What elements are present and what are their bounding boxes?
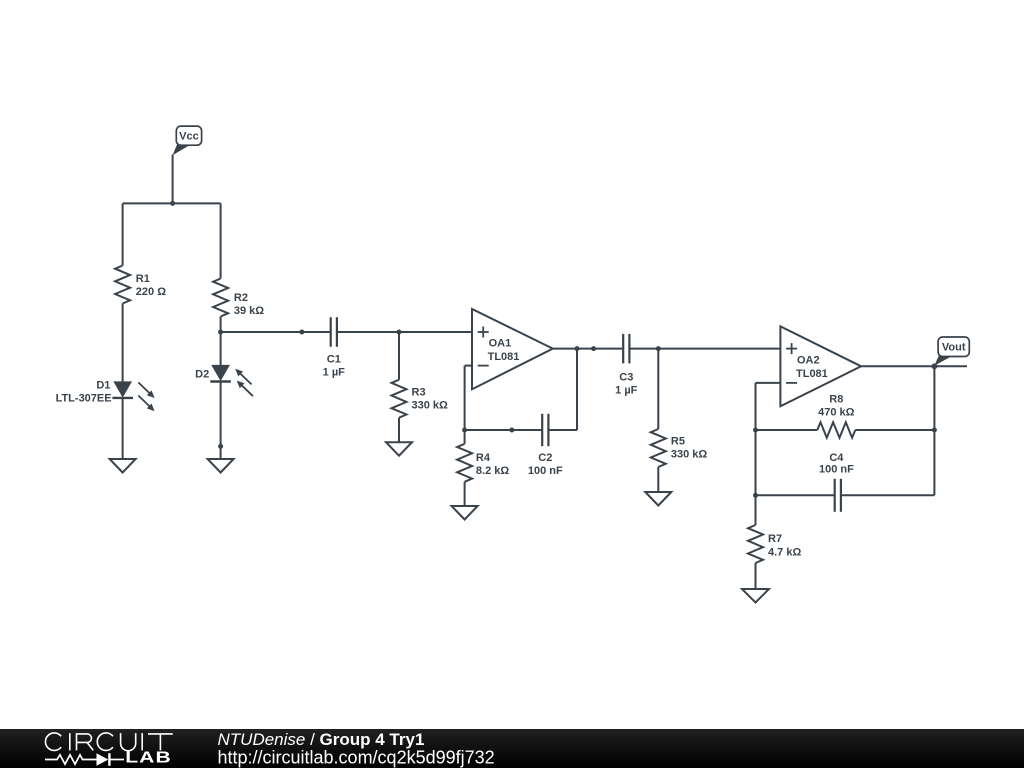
svg-text:330 kΩ: 330 kΩ [412, 400, 449, 412]
wire C2 to riser [549, 429, 577, 431]
node OA1 out a [575, 346, 580, 351]
resistor R8 [817, 422, 855, 437]
label C3 value [615, 371, 638, 396]
footer title line [218, 730, 425, 749]
wire Vcc drop [172, 155, 174, 204]
wire R2 to D2 [220, 317, 222, 366]
svg-text:R7: R7 [768, 533, 782, 545]
node C4 left junction [753, 493, 758, 498]
label D1 part [56, 392, 112, 404]
logo resistor symbol [45, 755, 97, 764]
ground D1 [110, 459, 136, 473]
svg-text:Vout: Vout [942, 341, 966, 353]
wire output riser [933, 366, 935, 495]
wire OA1 minus stub [465, 365, 472, 367]
wire feedback row to C2 [465, 429, 542, 431]
wire C4 left lead [756, 494, 835, 496]
resistor R4 [457, 444, 472, 482]
svg-text:TL081: TL081 [796, 368, 828, 380]
wire R4 top lead [464, 430, 466, 444]
label R1 value [136, 273, 166, 298]
footer url line [218, 748, 495, 768]
label D1 [96, 379, 110, 391]
label D2 [195, 369, 209, 381]
node R8 right junction [932, 428, 937, 433]
svg-text:D2: D2 [195, 369, 209, 381]
capacitor C2 [542, 414, 548, 446]
node R5 junction [656, 346, 661, 351]
wire OA2 output [861, 365, 967, 367]
diode D1 (LED) [112, 382, 133, 398]
wire R7 to ground [755, 563, 757, 589]
ground R7 [742, 589, 769, 603]
Vcc flag [173, 126, 202, 155]
label R7 value [768, 533, 801, 559]
node Vout junction [932, 363, 938, 369]
ground R4 [452, 506, 478, 520]
svg-text:http://circuitlab.com/cq2k5d99: http://circuitlab.com/cq2k5d99fj732 [218, 748, 495, 768]
svg-text:R3: R3 [412, 387, 426, 399]
wire D2 to ground [220, 382, 222, 460]
svg-text:C2: C2 [538, 452, 552, 464]
svg-text:Vcc: Vcc [179, 130, 199, 142]
logo LAB text [125, 748, 172, 766]
D1 light arrows [138, 382, 154, 411]
OA1 plus sign [478, 327, 489, 338]
capacitor C3 [623, 334, 629, 364]
svg-text:39 kΩ: 39 kΩ [234, 305, 264, 317]
label R5 value [671, 436, 708, 461]
label OA2 [796, 355, 828, 380]
svg-text:C4: C4 [829, 452, 844, 464]
wire feedback riser [576, 349, 578, 430]
wire R2 junction to C1 [221, 331, 330, 333]
diode D2 (photodiode) [210, 365, 231, 381]
resistor R7 [748, 525, 763, 563]
OA2 plus sign [786, 343, 797, 354]
wire D1 to ground [122, 398, 124, 459]
svg-text:TL081: TL081 [488, 351, 520, 363]
label C1 value [323, 353, 346, 378]
wire R2 top lead [220, 203, 222, 278]
op-amp OA2 [780, 326, 861, 406]
wire R3 to ground [398, 418, 400, 443]
resistor R5 [651, 429, 666, 467]
wire OA1 output [553, 348, 623, 350]
Vout flag [934, 337, 969, 366]
node R4 junction [462, 428, 467, 433]
logo CIRCUIT text [45, 733, 172, 751]
OA1 minus sign [478, 365, 489, 367]
wire R5 top lead [657, 349, 659, 429]
svg-text:8.2 kΩ: 8.2 kΩ [476, 465, 509, 477]
svg-text:4.7 kΩ: 4.7 kΩ [768, 547, 801, 559]
logo diode symbol [97, 753, 125, 766]
label R2 value [234, 292, 264, 317]
label C4 value [819, 452, 854, 476]
wire OA2 minus drop [755, 383, 757, 525]
label R8 value [818, 393, 855, 418]
capacitor C4 [835, 479, 841, 512]
wire R5 to ground [657, 467, 659, 492]
node R3 junction [397, 330, 402, 335]
wire R1 to D1 [122, 304, 124, 382]
footer bar [0, 729, 1024, 768]
ground D2 [208, 459, 234, 473]
svg-text:NTUDenise / Group 4 Try1: NTUDenise / Group 4 Try1 [218, 730, 425, 749]
D2 light arrows [235, 369, 253, 396]
wire C1 to OA1 plus [338, 331, 472, 333]
svg-text:C3: C3 [619, 371, 633, 383]
label R4 value [476, 452, 509, 477]
resistor R1 [115, 266, 130, 304]
node pre-C1 [299, 330, 304, 335]
svg-text:1 µF: 1 µF [615, 384, 638, 396]
wire OA1 minus drop [464, 366, 466, 430]
ground R5 [645, 492, 671, 506]
wire R8 left lead [756, 429, 818, 431]
wire R8 right lead [855, 429, 934, 431]
svg-text:470 kΩ: 470 kΩ [818, 406, 855, 418]
svg-text:OA1: OA1 [489, 337, 512, 349]
OA2 minus sign [786, 382, 797, 384]
wire R4 to ground [464, 482, 466, 506]
svg-text:R8: R8 [829, 393, 843, 405]
svg-text:100 nF: 100 nF [819, 464, 854, 476]
wire C3 to OA2 plus [630, 348, 780, 350]
label R3 value [412, 387, 449, 412]
node feedback mid [509, 428, 514, 433]
wire R1 top lead [122, 203, 124, 265]
svg-text:LTL-307EE: LTL-307EE [56, 392, 112, 404]
wire top rail [123, 202, 221, 204]
svg-text:D1: D1 [96, 379, 110, 391]
svg-text:C1: C1 [327, 353, 341, 365]
svg-text:R2: R2 [234, 292, 248, 304]
node R2-C1 junction [218, 330, 223, 335]
wire C4 right lead [841, 494, 934, 496]
op-amp OA1 [472, 309, 553, 389]
node R8 left junction [753, 428, 758, 433]
node OA1 out b [591, 346, 596, 351]
resistor R3 [392, 380, 407, 418]
capacitor C1 [331, 317, 337, 347]
node D2 ground junction [218, 444, 223, 449]
ground R3 [386, 442, 412, 456]
svg-text:LAB: LAB [125, 748, 172, 766]
svg-text:1 µF: 1 µF [323, 366, 346, 378]
svg-text:330 kΩ: 330 kΩ [671, 449, 708, 461]
node Vcc rail junction [170, 201, 175, 206]
svg-text:R5: R5 [671, 436, 685, 448]
svg-text:R1: R1 [136, 273, 150, 285]
wire OA2 minus stub [756, 382, 781, 384]
resistor R2 [213, 279, 228, 317]
label OA1 [488, 337, 520, 362]
svg-text:220 Ω: 220 Ω [136, 286, 166, 298]
svg-text:OA2: OA2 [797, 355, 820, 367]
svg-text:100 nF: 100 nF [528, 465, 563, 477]
svg-text:R4: R4 [476, 452, 491, 464]
label C2 value [528, 452, 563, 477]
wire R3 top lead [398, 332, 400, 380]
